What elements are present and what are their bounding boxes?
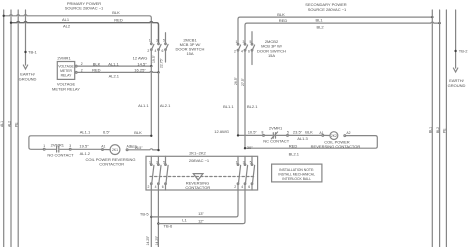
svg-text:SOURCE 280VAC ~1: SOURCE 280VAC ~1: [65, 6, 104, 11]
junction BL2.1 return: [244, 147, 246, 149]
svg-text:15A: 15A: [268, 53, 275, 58]
svg-text:4: 4: [241, 185, 243, 189]
junction AL1.1: [150, 65, 152, 67]
contactor 2K1 pole 3: [158, 156, 161, 247]
node right bus BL2 vertical: [439, 10, 441, 247]
contact 2VMR1 NO pin 1: [43, 148, 45, 150]
terminal TB-1: [24, 51, 26, 53]
svg-text:6: 6: [162, 49, 164, 53]
breaker 2MCB1 pole 1: [151, 43, 154, 66]
breaker 2MCB1 pole 3: [165, 33, 168, 62]
label voltage meter relay inside: [58, 65, 74, 78]
svg-text:BL1.1: BL1.1: [223, 104, 234, 109]
svg-text:2VMR1: 2VMR1: [269, 126, 283, 131]
label 2K1 pins 135: [149, 160, 165, 164]
svg-text:19.5": 19.5": [79, 144, 89, 149]
svg-text:208VAC ~1: 208VAC ~1: [189, 158, 210, 163]
svg-text:AL1: AL1: [0, 121, 4, 127]
wire row1 BLK loop top: [29, 136, 151, 150]
svg-text:BL2: BL2: [316, 25, 324, 30]
terminal TB-2: [454, 50, 456, 52]
node right bus PE vertical: [445, 10, 447, 247]
svg-text:AL2: AL2: [63, 23, 71, 28]
relay 2VMR1 box: [57, 62, 74, 80]
svg-text:AL2: AL2: [7, 121, 11, 127]
svg-text:4: 4: [241, 49, 243, 53]
label AL1: [62, 17, 70, 22]
label relay wire1: [81, 61, 147, 66]
label PE bus rotated: [15, 122, 19, 127]
svg-text:2: 2: [148, 185, 150, 189]
label RED primary: [114, 18, 123, 23]
svg-text:3: 3: [243, 40, 245, 44]
wire AL1/RED primary: [11, 22, 159, 43]
breaker 2MCB2 pole 3: [251, 32, 254, 65]
coil 2K2 pin A1: [322, 135, 330, 137]
svg-text:AL1.1: AL1.1: [138, 103, 149, 108]
junction BLK-AL1 bus: [3, 15, 5, 17]
svg-text:6: 6: [248, 185, 250, 189]
label BLK secondary: [277, 12, 285, 17]
wire BLK primary: [4, 15, 152, 43]
svg-text:6.5": 6.5": [103, 130, 111, 135]
svg-text:1: 1: [236, 160, 238, 164]
contact 2VMR1 NC pin 8: [263, 135, 265, 137]
svg-text:2VMR1: 2VMR1: [57, 55, 71, 60]
label BLK primary: [112, 10, 120, 15]
wire secondary BLK: [238, 17, 432, 43]
label 208VAC: [189, 158, 210, 163]
node left bus AL2 vertical: [10, 10, 12, 247]
svg-text:INTERLOCK BALL: INTERLOCK BALL: [282, 177, 311, 181]
label secondary power title: [305, 2, 347, 12]
svg-text:BLK: BLK: [93, 61, 101, 66]
wire AL2.1 down: [158, 72, 160, 150]
label 30 inch: [247, 145, 253, 150]
wire AL1.2: [71, 148, 102, 150]
breaker 2MCB1 pole 2: [158, 43, 161, 72]
coil 2K1: [110, 145, 120, 155]
svg-text:AL2.1: AL2.1: [160, 103, 171, 108]
svg-text:22.75": 22.75": [159, 58, 163, 68]
label BL2: [316, 25, 324, 30]
label 2K2 pins 246: [234, 185, 250, 189]
svg-text:19.5": 19.5": [152, 54, 156, 63]
svg-text:TB-1: TB-1: [28, 50, 37, 55]
ground arrow left: [23, 65, 27, 69]
wire earth drop TB-1: [25, 10, 27, 65]
svg-text:BL2: BL2: [436, 127, 440, 133]
label 10.5 inch: [248, 130, 258, 135]
junction AL1 bus: [10, 22, 12, 24]
svg-text:2: 2: [234, 49, 236, 53]
ground arrow right: [453, 68, 457, 72]
svg-text:A1: A1: [101, 145, 105, 149]
label TB-5: [140, 211, 149, 216]
svg-text:2K1: 2K1: [112, 148, 118, 152]
label PE right rotated: [443, 128, 447, 133]
svg-text:BL1: BL1: [429, 127, 433, 133]
label 2K2 pins 135: [236, 160, 252, 164]
svg-text:PE: PE: [15, 122, 19, 127]
svg-text:METER RELAY: METER RELAY: [52, 86, 80, 91]
coil 2K1 pin A2: [126, 149, 128, 151]
contact 2VMR1 NO pin 2: [69, 148, 71, 150]
svg-text:L1: L1: [182, 218, 187, 223]
svg-text:BL1: BL1: [315, 17, 323, 22]
label 2MCB2 pins 2 4 6: [234, 49, 250, 53]
label AL2 bus rotated: [7, 121, 11, 127]
label wire length 22.75: [159, 58, 163, 68]
label 2MCB2 text: [257, 39, 286, 58]
wire AL1.1 down: [150, 66, 152, 136]
svg-text:BL2.1: BL2.1: [289, 152, 300, 157]
label NO contact pins: [43, 143, 71, 148]
svg-text:1: 1: [43, 144, 45, 148]
contact 2VMR1 NO bars: [45, 147, 69, 152]
label 2MCB2 pins 1 3 5: [236, 40, 252, 44]
label AL1.2 wire: [79, 144, 90, 157]
svg-text:6: 6: [248, 49, 250, 53]
svg-text:BLK: BLK: [277, 12, 285, 17]
svg-text:3: 3: [69, 144, 71, 148]
contactor 2K1 pole 1: [151, 156, 154, 247]
svg-text:16.25": 16.25": [134, 68, 146, 73]
svg-text:2: 2: [234, 185, 236, 189]
svg-text:INSTALL MECHANICAL: INSTALL MECHANICAL: [278, 172, 315, 176]
wire A2 return loop: [245, 136, 377, 149]
wire L1 12in cross link: [158, 190, 245, 224]
svg-text:RED: RED: [289, 144, 298, 149]
svg-text:2K2: 2K2: [331, 134, 337, 138]
svg-text:BLK: BLK: [112, 10, 120, 15]
svg-text:4: 4: [155, 49, 157, 53]
label 2MCB1 text: [176, 38, 205, 57]
label reversing contactor: [185, 181, 210, 190]
svg-text:12 AWG: 12 AWG: [133, 56, 148, 61]
svg-text:10.5": 10.5": [248, 130, 258, 135]
svg-text:2VMR1: 2VMR1: [51, 143, 65, 148]
junction BLK right bus: [431, 16, 433, 18]
svg-text:AL2.1: AL2.1: [109, 74, 120, 79]
svg-text:26.5": 26.5": [234, 76, 238, 85]
junction BL1.1 row: [237, 134, 239, 136]
junction RED right bus: [438, 22, 440, 24]
label wire length 27.5: [241, 77, 245, 86]
label primary power title: [65, 1, 104, 11]
wire row BL1.1 loop: [238, 134, 263, 136]
svg-text:5: 5: [163, 160, 165, 164]
svg-text:RELAY: RELAY: [61, 73, 73, 77]
label 2MCB1 pins 2 4 6: [147, 49, 163, 53]
label BL1.1: [223, 104, 234, 109]
svg-text:2: 2: [81, 62, 83, 66]
label 2K1 coil: [101, 145, 143, 153]
svg-text:AL1.3: AL1.3: [297, 136, 308, 141]
svg-text:14.25": 14.25": [146, 235, 150, 245]
label RED return: [289, 144, 298, 149]
svg-text:5: 5: [250, 40, 252, 44]
label AL1.3: [297, 136, 308, 141]
svg-text:RED: RED: [114, 18, 123, 23]
svg-text:AL1.1: AL1.1: [80, 130, 91, 135]
svg-text:2: 2: [81, 69, 83, 73]
label AL2.1 mid: [160, 103, 171, 108]
label 23.5 BLK: [293, 129, 313, 134]
svg-text:REVERSING CONTACTOR: REVERSING CONTACTOR: [311, 144, 361, 149]
svg-text:3: 3: [156, 160, 158, 164]
svg-text:5: 5: [250, 160, 252, 164]
label wire length 19.5: [152, 54, 156, 63]
svg-text:NO CONTACT: NO CONTACT: [47, 153, 74, 158]
svg-text:26.5": 26.5": [135, 146, 144, 150]
label 2K2 coil: [319, 131, 350, 138]
label earth/ground left: [19, 72, 37, 82]
svg-text:BLK: BLK: [134, 130, 142, 135]
node left bus AL1 vertical: [3, 10, 5, 247]
svg-text:BL2.1: BL2.1: [247, 104, 258, 109]
label TB-2: [459, 49, 468, 54]
wire secondary RED: [245, 22, 440, 43]
label wire length 26.5: [234, 76, 238, 85]
svg-text:2K1~2K2: 2K1~2K2: [189, 151, 206, 156]
label coil power reversing contactor right: [311, 139, 361, 149]
junction AL2.1: [157, 71, 159, 73]
svg-text:GROUND: GROUND: [448, 83, 466, 88]
svg-text:A2: A2: [346, 131, 350, 135]
contact 2VMR1 NC pin 5: [287, 135, 289, 137]
svg-text:1: 1: [149, 160, 151, 164]
label NC contact: [263, 139, 289, 144]
label row1: [80, 130, 142, 136]
junction RED-AL2.1: [157, 149, 159, 151]
svg-text:2: 2: [147, 49, 149, 53]
svg-text:3: 3: [243, 160, 245, 164]
wire 13in cross link: [151, 190, 238, 217]
wire AL2.1 relay RED: [75, 71, 158, 73]
coil 2K1 pin A1: [102, 149, 111, 151]
label installation note: [278, 168, 315, 181]
wire earth drop TB-2: [455, 10, 457, 68]
svg-text:AL1.2: AL1.2: [80, 151, 91, 156]
svg-text:CONTACTOR: CONTACTOR: [99, 161, 124, 166]
svg-text:CONTACTOR: CONTACTOR: [185, 185, 210, 190]
contactor 2K2 pole 5: [251, 156, 254, 190]
svg-text:6: 6: [162, 185, 164, 189]
label NO contact: [47, 153, 74, 158]
contactor box 2K1-2K2: [146, 156, 258, 190]
node right bus BL1 vertical: [431, 10, 433, 247]
label NC pins: [261, 126, 289, 135]
svg-text:AL1.1: AL1.1: [108, 62, 119, 67]
label AL2: [63, 23, 71, 28]
label BL1: [315, 17, 323, 22]
wire AL1.1 relay BLK: [75, 65, 151, 67]
svg-text:PE: PE: [443, 128, 447, 133]
label 14.25 right rotated: [155, 235, 159, 245]
wire AL1.3: [288, 134, 322, 136]
label 2K1 pins 246: [148, 185, 164, 189]
svg-text:1: 1: [149, 38, 151, 42]
label AL1 bus rotated: [0, 121, 4, 127]
contact 2VMR1 NC bars: [264, 132, 286, 139]
junction row1: [150, 135, 152, 137]
label TB-1: [28, 50, 37, 55]
label relay wire2: [81, 68, 147, 79]
svg-text:4: 4: [155, 185, 157, 189]
label 2K1~2K2: [189, 151, 206, 156]
interlock triangle: [193, 174, 203, 180]
label L1: [182, 218, 187, 223]
svg-text:RED: RED: [279, 18, 288, 23]
svg-text:TB-2: TB-2: [459, 49, 468, 54]
coil 2K2: [330, 132, 338, 140]
contactor 2K1 pole 5: [165, 156, 168, 190]
svg-text:12": 12": [198, 219, 204, 224]
svg-text:1: 1: [236, 40, 238, 44]
label 2MCB1 pins 1 3 5: [149, 38, 165, 42]
svg-text:AL1: AL1: [62, 17, 70, 22]
coil 2K2 pin A2: [344, 135, 346, 137]
svg-text:5: 5: [163, 38, 165, 42]
svg-text:BLK: BLK: [305, 129, 313, 134]
contactor 2K2 pole 3: [244, 156, 247, 190]
svg-text:27.5": 27.5": [241, 77, 245, 86]
wire RED to AL2.1: [128, 149, 159, 150]
svg-text:15A: 15A: [186, 51, 193, 56]
svg-text:GROUND: GROUND: [19, 77, 37, 82]
svg-text:8: 8: [261, 130, 263, 134]
svg-text:30": 30": [247, 145, 253, 150]
label 12 inch: [198, 219, 204, 224]
label 12 AWG left: [133, 56, 148, 61]
node left bus PE vertical: [17, 10, 19, 247]
terminal TB-5: [150, 216, 152, 218]
breaker 2MCB2 pole 2: [244, 43, 247, 148]
label 2VMR1 top: [57, 55, 71, 60]
interlock dashed link: [150, 176, 255, 178]
label BL2 bus rotated: [436, 127, 440, 133]
svg-text:13": 13": [198, 211, 204, 216]
label 14.25 left rotated: [146, 235, 150, 245]
note box: [272, 164, 322, 182]
svg-text:A1: A1: [319, 131, 323, 135]
terminal TB-6: [157, 222, 159, 224]
label TB-6: [164, 223, 173, 228]
label earth/ground right: [448, 78, 466, 88]
contactor 2K2 pole 1: [237, 156, 240, 190]
svg-text:TB-5: TB-5: [140, 211, 149, 216]
svg-text:RED: RED: [92, 68, 101, 73]
label BL2.1 return: [289, 152, 300, 157]
svg-text:14.5": 14.5": [137, 61, 147, 66]
label 13 inch: [198, 211, 204, 216]
svg-text:5: 5: [287, 130, 289, 134]
label AL1.1 mid: [138, 103, 149, 108]
label BL2.1: [247, 104, 258, 109]
svg-text:INSTALLATION NOTE:: INSTALLATION NOTE:: [279, 168, 314, 172]
label RED secondary: [279, 18, 288, 23]
label 12 AWG right: [214, 129, 229, 134]
svg-text:14.25": 14.25": [155, 235, 159, 245]
label voltage meter relay below: [52, 82, 80, 92]
svg-text:SOURCE 280VAC ~1: SOURCE 280VAC ~1: [308, 7, 347, 12]
breaker 2MCB2 pole 1: [237, 43, 240, 135]
svg-text:12 AWG: 12 AWG: [214, 129, 229, 134]
svg-text:23.5": 23.5": [293, 129, 303, 134]
svg-text:NC CONTACT: NC CONTACT: [263, 139, 289, 144]
label coil power reversing contactor left: [85, 157, 135, 166]
svg-text:3: 3: [156, 38, 158, 42]
svg-text:TB-6: TB-6: [164, 223, 173, 228]
label BL1 bus rotated: [429, 127, 433, 133]
